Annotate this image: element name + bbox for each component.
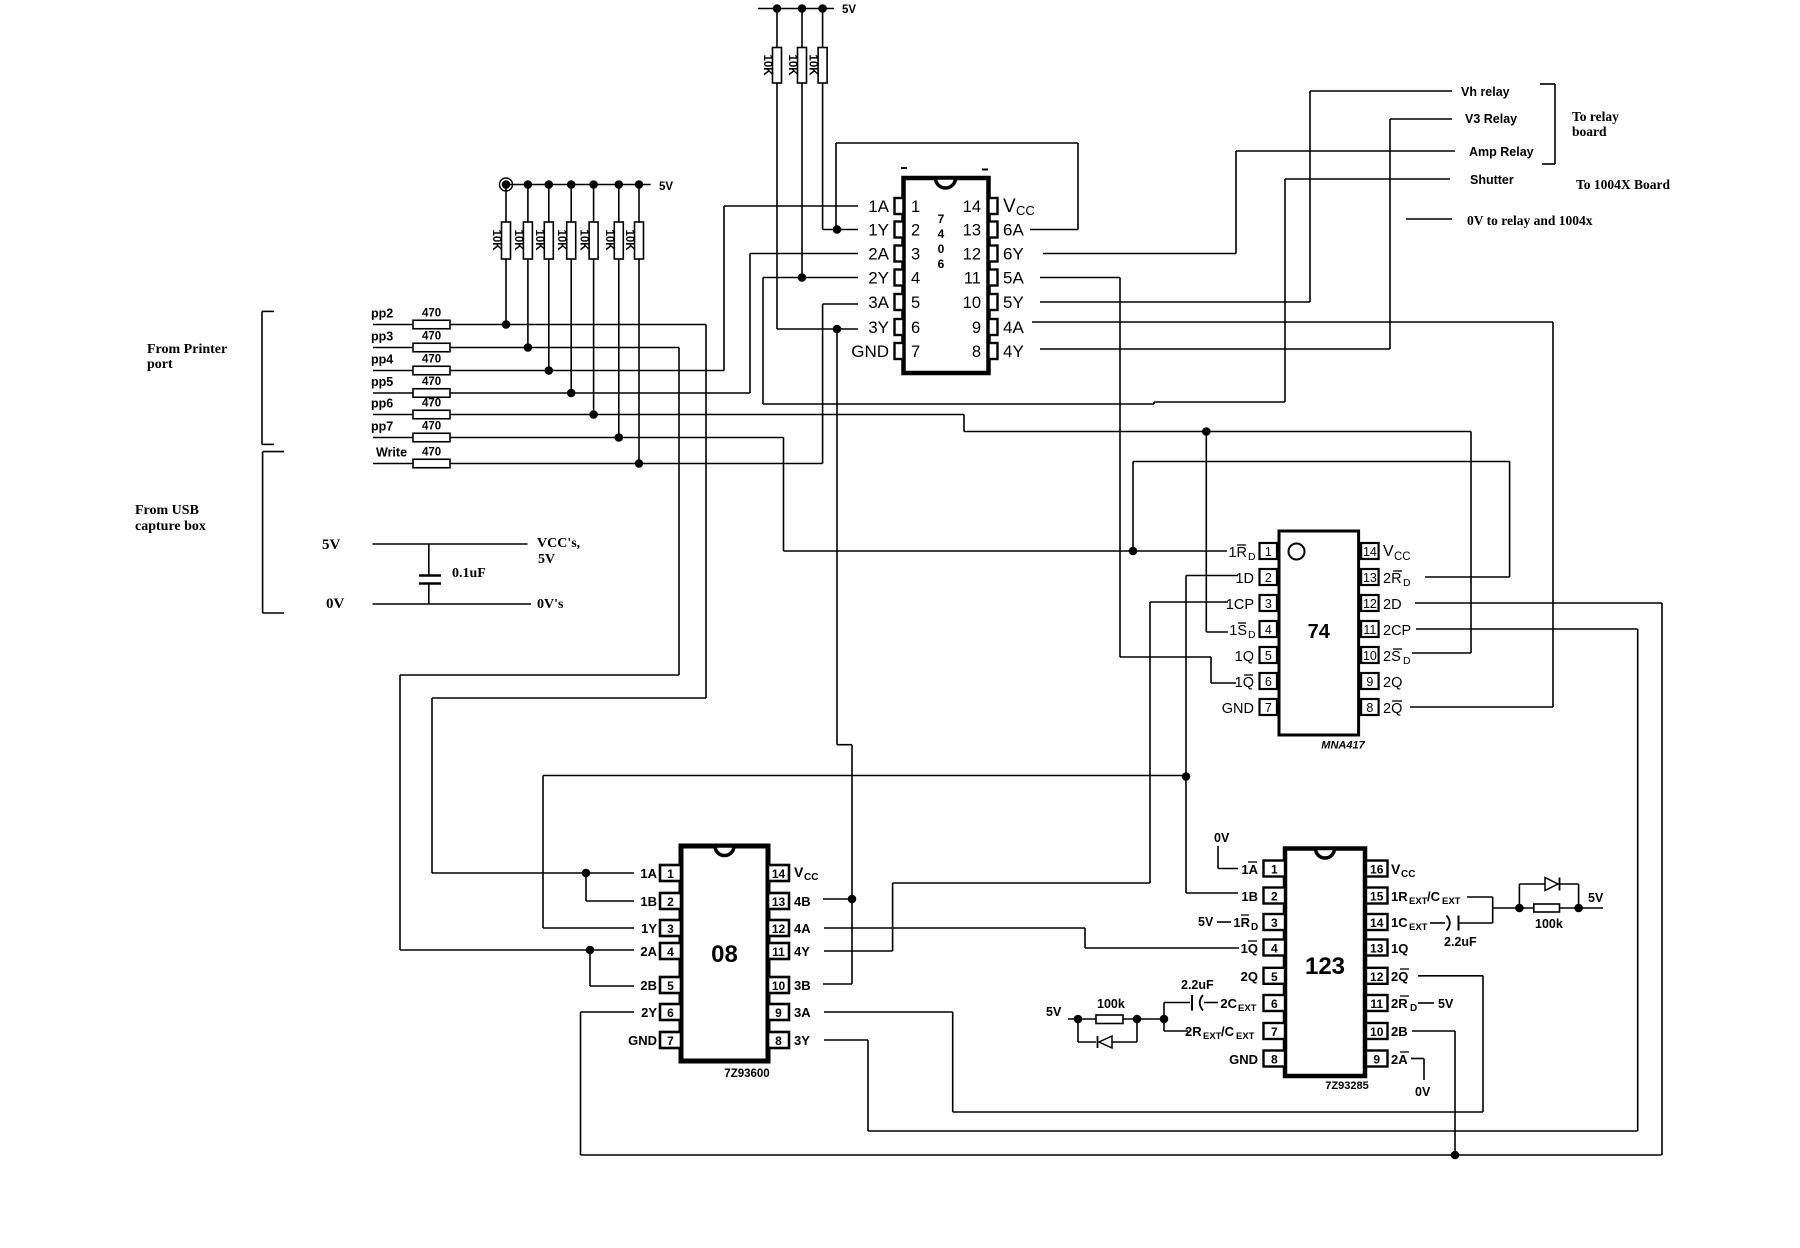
svg-text:11: 11 xyxy=(772,945,785,959)
svg-text:V: V xyxy=(1003,196,1016,217)
svg-text:1: 1 xyxy=(667,867,674,881)
svg-text:pp5: pp5 xyxy=(371,375,393,389)
svg-text:2.2uF: 2.2uF xyxy=(1181,978,1214,992)
svg-text:1D: 1D xyxy=(1235,571,1254,587)
svg-text:2A: 2A xyxy=(868,245,889,264)
svg-text:V3 Relay: V3 Relay xyxy=(1465,112,1517,126)
svg-text:2Q: 2Q xyxy=(1383,675,1402,691)
svg-text:10: 10 xyxy=(1370,1025,1384,1039)
svg-text:4B: 4B xyxy=(794,894,811,909)
svg-text:10K: 10K xyxy=(578,229,590,251)
svg-text:3: 3 xyxy=(667,922,674,936)
svg-text:Shutter: Shutter xyxy=(1470,173,1514,187)
svg-text:0V: 0V xyxy=(1415,1085,1431,1099)
svg-text:CC: CC xyxy=(1394,551,1411,563)
svg-text:5V: 5V xyxy=(842,4,856,16)
svg-text:pp3: pp3 xyxy=(371,330,393,344)
svg-text:GND: GND xyxy=(1229,1052,1258,1067)
svg-text:2R: 2R xyxy=(1391,996,1408,1011)
svg-text:V: V xyxy=(1383,543,1394,560)
svg-text:5V: 5V xyxy=(659,181,673,193)
svg-text:10K: 10K xyxy=(761,54,773,76)
svg-text:5: 5 xyxy=(1271,970,1278,984)
svg-text:8: 8 xyxy=(972,343,981,361)
svg-text:0V: 0V xyxy=(326,596,345,612)
svg-text:5V: 5V xyxy=(1588,891,1604,905)
svg-text:2CP: 2CP xyxy=(1383,623,1411,639)
svg-text:D: D xyxy=(1251,922,1258,933)
svg-text:4: 4 xyxy=(911,270,920,288)
svg-text:pp2: pp2 xyxy=(371,307,393,321)
svg-text:pp6: pp6 xyxy=(371,397,393,411)
svg-text:6: 6 xyxy=(938,257,945,271)
svg-text:16: 16 xyxy=(1370,863,1384,877)
svg-text:2S: 2S xyxy=(1383,649,1401,665)
svg-text:Vh relay: Vh relay xyxy=(1461,85,1510,99)
svg-text:2: 2 xyxy=(1271,890,1278,904)
svg-text:/C: /C xyxy=(1427,889,1441,904)
svg-text:5V: 5V xyxy=(538,552,555,567)
svg-text:2Q: 2Q xyxy=(1241,969,1258,984)
svg-text:3Y: 3Y xyxy=(794,1033,810,1048)
svg-text:EXT: EXT xyxy=(1409,896,1428,907)
svg-text:From USB: From USB xyxy=(135,503,199,518)
svg-text:15: 15 xyxy=(1370,890,1384,904)
svg-text:3A: 3A xyxy=(794,1005,811,1020)
svg-text:5A: 5A xyxy=(1003,269,1024,288)
svg-text:100k: 100k xyxy=(1097,997,1125,1011)
svg-text:To relay: To relay xyxy=(1572,109,1619,124)
svg-text:2A: 2A xyxy=(640,944,657,959)
svg-text:/C: /C xyxy=(1221,1024,1235,1039)
svg-text:10K: 10K xyxy=(533,229,545,251)
svg-text:14: 14 xyxy=(1370,916,1384,930)
svg-text:4: 4 xyxy=(1265,623,1272,637)
svg-text:10K: 10K xyxy=(807,54,819,76)
svg-text:10K: 10K xyxy=(512,229,524,251)
svg-text:3: 3 xyxy=(911,246,920,264)
svg-text:100k: 100k xyxy=(1535,917,1563,931)
svg-text:7: 7 xyxy=(938,212,945,226)
svg-text:V: V xyxy=(794,864,804,880)
svg-text:2Q: 2Q xyxy=(1383,701,1402,717)
svg-text:MNA417: MNA417 xyxy=(1321,740,1365,752)
svg-text:470: 470 xyxy=(422,308,441,320)
svg-text:2: 2 xyxy=(667,895,674,909)
svg-text:2Q: 2Q xyxy=(1391,969,1408,984)
svg-text:4A: 4A xyxy=(1003,318,1024,337)
svg-text:1Y: 1Y xyxy=(868,221,889,240)
svg-text:9: 9 xyxy=(1366,675,1373,689)
svg-text:D: D xyxy=(1403,577,1411,589)
svg-text:GND: GND xyxy=(1222,701,1254,717)
svg-text:2R: 2R xyxy=(1383,571,1402,587)
svg-text:6: 6 xyxy=(1271,997,1278,1011)
svg-text:4Y: 4Y xyxy=(1003,342,1024,361)
svg-text:V: V xyxy=(1391,861,1401,877)
svg-text:EXT: EXT xyxy=(1409,922,1428,933)
svg-text:6: 6 xyxy=(911,319,920,337)
svg-text:1: 1 xyxy=(911,198,920,216)
svg-text:1B: 1B xyxy=(640,894,657,909)
svg-text:1A: 1A xyxy=(868,197,889,216)
svg-text:To 1004X Board: To 1004X Board xyxy=(1576,177,1671,192)
svg-text:5: 5 xyxy=(1265,649,1272,663)
svg-text:8: 8 xyxy=(1366,701,1373,715)
svg-text:4Y: 4Y xyxy=(794,944,810,959)
svg-text:5V: 5V xyxy=(322,537,341,553)
svg-text:0V: 0V xyxy=(1214,831,1230,845)
svg-text:2: 2 xyxy=(911,222,920,240)
svg-text:08: 08 xyxy=(711,941,738,968)
svg-text:D: D xyxy=(1248,551,1256,563)
svg-text:pp7: pp7 xyxy=(371,420,393,434)
svg-text:5V: 5V xyxy=(1198,915,1214,929)
svg-text:0V to relay and 1004x: 0V to relay and 1004x xyxy=(1467,213,1593,228)
svg-text:74: 74 xyxy=(1308,621,1331,643)
svg-text:12: 12 xyxy=(772,922,786,936)
svg-text:EXT: EXT xyxy=(1203,1031,1222,1042)
svg-text:12: 12 xyxy=(1363,597,1377,611)
svg-text:8: 8 xyxy=(1271,1053,1278,1067)
svg-text:2D: 2D xyxy=(1383,597,1402,613)
svg-text:CC: CC xyxy=(804,872,818,883)
svg-text:123: 123 xyxy=(1305,953,1345,980)
svg-text:6Y: 6Y xyxy=(1003,245,1024,264)
svg-text:470: 470 xyxy=(422,398,441,410)
svg-text:1R: 1R xyxy=(1391,889,1408,904)
svg-text:14: 14 xyxy=(1363,545,1377,559)
svg-text:2A: 2A xyxy=(1391,1052,1408,1067)
svg-text:board: board xyxy=(1572,124,1607,139)
svg-text:6: 6 xyxy=(667,1006,674,1020)
svg-text:14: 14 xyxy=(963,198,981,216)
svg-text:5V: 5V xyxy=(1046,1005,1062,1019)
svg-text:3A: 3A xyxy=(868,293,889,312)
svg-text:8: 8 xyxy=(775,1034,782,1048)
svg-text:5V: 5V xyxy=(1438,997,1454,1011)
svg-text:D: D xyxy=(1410,1003,1417,1014)
svg-text:10K: 10K xyxy=(623,229,635,251)
svg-text:10K: 10K xyxy=(603,229,615,251)
svg-text:1S: 1S xyxy=(1229,623,1247,639)
svg-text:7Z93600: 7Z93600 xyxy=(724,1068,769,1080)
svg-text:4: 4 xyxy=(938,227,945,241)
svg-text:3B: 3B xyxy=(794,978,811,993)
svg-text:D: D xyxy=(1248,629,1256,641)
svg-text:4: 4 xyxy=(1271,942,1278,956)
svg-text:4A: 4A xyxy=(794,921,811,936)
svg-text:470: 470 xyxy=(422,447,441,459)
svg-text:6A: 6A xyxy=(1003,221,1024,240)
svg-text:2.2uF: 2.2uF xyxy=(1444,935,1477,949)
svg-text:470: 470 xyxy=(422,421,441,433)
svg-text:7: 7 xyxy=(1265,701,1272,715)
svg-text:0.1uF: 0.1uF xyxy=(452,566,486,581)
svg-text:2Y: 2Y xyxy=(868,269,889,288)
svg-text:1: 1 xyxy=(1271,863,1278,877)
svg-text:CC: CC xyxy=(1016,203,1035,218)
svg-text:EXT: EXT xyxy=(1236,1031,1255,1042)
svg-text:1A: 1A xyxy=(640,866,657,881)
svg-text:0V's: 0V's xyxy=(537,597,564,612)
svg-text:7: 7 xyxy=(911,343,920,361)
svg-text:From Printer: From Printer xyxy=(147,342,227,357)
svg-text:7: 7 xyxy=(667,1034,674,1048)
svg-text:1Y: 1Y xyxy=(641,921,657,936)
svg-text:11: 11 xyxy=(1363,623,1376,637)
svg-text:D: D xyxy=(1403,655,1411,667)
svg-text:9: 9 xyxy=(972,319,981,337)
svg-text:7: 7 xyxy=(1271,1025,1278,1039)
svg-text:GND: GND xyxy=(628,1033,657,1048)
svg-text:GND: GND xyxy=(851,342,889,361)
svg-text:5Y: 5Y xyxy=(1003,293,1024,312)
svg-text:1C: 1C xyxy=(1391,915,1408,930)
svg-text:1Q: 1Q xyxy=(1241,941,1258,956)
svg-text:pp4: pp4 xyxy=(371,353,393,367)
svg-text:1CP: 1CP xyxy=(1226,597,1254,613)
svg-text:6: 6 xyxy=(1265,675,1272,689)
svg-text:port: port xyxy=(147,357,173,372)
svg-text:2B: 2B xyxy=(640,978,657,993)
svg-text:470: 470 xyxy=(422,354,441,366)
svg-text:EXT: EXT xyxy=(1442,896,1461,907)
svg-text:Amp Relay: Amp Relay xyxy=(1469,145,1534,159)
svg-text:2Y: 2Y xyxy=(641,1005,657,1020)
svg-text:1A: 1A xyxy=(1241,862,1258,877)
svg-text:10: 10 xyxy=(1363,649,1377,663)
svg-text:14: 14 xyxy=(772,867,786,881)
svg-text:10K: 10K xyxy=(555,229,567,251)
svg-text:7Z93285: 7Z93285 xyxy=(1325,1080,1368,1092)
svg-text:3: 3 xyxy=(1265,597,1272,611)
svg-text:0: 0 xyxy=(938,242,945,256)
svg-text:470: 470 xyxy=(422,331,441,343)
svg-text:10: 10 xyxy=(772,979,786,993)
svg-text:13: 13 xyxy=(963,222,981,240)
svg-text:1Q: 1Q xyxy=(1391,941,1408,956)
svg-text:1B: 1B xyxy=(1241,889,1258,904)
svg-text:CC: CC xyxy=(1401,869,1415,880)
svg-text:3Y: 3Y xyxy=(868,318,889,337)
svg-text:11: 11 xyxy=(964,270,981,288)
svg-text:capture box: capture box xyxy=(135,519,206,534)
svg-text:1R: 1R xyxy=(1228,545,1247,561)
svg-text:9: 9 xyxy=(1373,1053,1380,1067)
svg-text:Write: Write xyxy=(376,446,407,460)
svg-text:EXT: EXT xyxy=(1238,1003,1257,1014)
svg-text:1Q: 1Q xyxy=(1235,675,1254,691)
svg-text:3: 3 xyxy=(1271,916,1278,930)
svg-text:12: 12 xyxy=(963,246,981,264)
svg-text:1R: 1R xyxy=(1233,915,1250,930)
svg-text:1Q: 1Q xyxy=(1235,649,1254,665)
svg-text:13: 13 xyxy=(1363,571,1377,585)
svg-text:5: 5 xyxy=(667,979,674,993)
svg-text:10: 10 xyxy=(963,294,981,312)
svg-text:10K: 10K xyxy=(786,54,798,76)
svg-text:2: 2 xyxy=(1265,571,1272,585)
svg-text:5: 5 xyxy=(911,294,920,312)
svg-text:4: 4 xyxy=(667,945,674,959)
svg-text:11: 11 xyxy=(1370,997,1383,1011)
svg-text:470: 470 xyxy=(422,376,441,388)
svg-text:VCC's,: VCC's, xyxy=(537,536,580,551)
svg-text:12: 12 xyxy=(1370,970,1384,984)
svg-text:1: 1 xyxy=(1265,545,1272,559)
svg-text:2B: 2B xyxy=(1391,1024,1408,1039)
svg-text:13: 13 xyxy=(1370,942,1384,956)
svg-text:10K: 10K xyxy=(490,229,502,251)
svg-text:9: 9 xyxy=(775,1006,782,1020)
svg-text:2C: 2C xyxy=(1220,996,1237,1011)
svg-text:13: 13 xyxy=(772,895,786,909)
